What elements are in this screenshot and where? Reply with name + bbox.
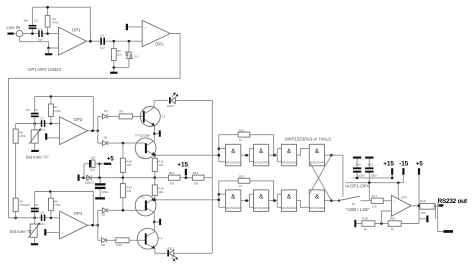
wire T1 collector to LED1 xyxy=(154,99,168,101)
svg-text:T2: T2 xyxy=(141,155,145,159)
node OP5 output xyxy=(418,204,421,207)
svg-text:+5: +5 xyxy=(107,155,115,162)
node D5 base xyxy=(122,209,125,212)
svg-text:КР1533ЛА3: КР1533ЛА3 xyxy=(281,206,297,210)
node D1 top xyxy=(128,40,131,43)
svg-text:240: 240 xyxy=(169,182,174,186)
node feedback R7 xyxy=(50,95,53,98)
resistor R21 feedback row1 xyxy=(219,128,274,155)
op-amp OP4 xyxy=(60,211,88,239)
svg-text:R13: R13 xyxy=(193,171,199,175)
gate U2C xyxy=(281,190,297,212)
node R2 top xyxy=(113,40,116,43)
wire U2D out xyxy=(325,200,339,202)
svg-text:КР1533ЛА3: КР1533ЛА3 xyxy=(253,160,269,164)
resistor R10 xyxy=(120,143,132,178)
capacitor C1 xyxy=(38,27,43,42)
capacitor C11 xyxy=(365,157,377,183)
svg-text:170k: 170k xyxy=(54,203,61,207)
node OP1 output xyxy=(89,40,92,43)
node R11 R15 xyxy=(154,176,157,179)
wire OP3 input line xyxy=(16,123,60,125)
svg-text:10n: 10n xyxy=(38,38,43,42)
resistor R18 xyxy=(362,217,388,232)
resistor R2 xyxy=(111,41,122,67)
svg-text:R12: R12 xyxy=(169,171,175,175)
wire T3 collector down xyxy=(153,213,155,232)
wire OP5 minus feedback xyxy=(381,211,391,224)
node C10 rail xyxy=(356,177,359,180)
svg-text:Set tone "B": Set tone "B" xyxy=(10,229,34,234)
wire OP4 input line xyxy=(9,217,60,219)
wire OP3 feedback top xyxy=(35,96,94,98)
svg-text:10k: 10k xyxy=(126,163,131,167)
svg-text:+15: +15 xyxy=(383,161,394,168)
node plus input xyxy=(47,47,50,50)
reference bar at OP2 plus xyxy=(126,24,142,30)
op-amp OP3 xyxy=(60,117,88,145)
wire cross couple A xyxy=(309,155,331,194)
wire U1C out to U1D xyxy=(297,149,310,156)
svg-text:R17: R17 xyxy=(372,194,378,198)
gate U2B xyxy=(253,190,269,212)
svg-text:RS232 out: RS232 out xyxy=(438,198,468,205)
svg-text:10k: 10k xyxy=(158,163,163,167)
node U1D out xyxy=(330,154,333,157)
wire OP3 output xyxy=(88,130,98,132)
node T2 emitter xyxy=(154,154,157,157)
node OP4 output xyxy=(97,224,100,227)
capacitor C13 to ground xyxy=(95,178,109,198)
svg-text:-15: -15 xyxy=(399,161,409,168)
node OP3 feedback xyxy=(91,129,94,132)
svg-text:1k: 1k xyxy=(239,184,243,188)
svg-text:КР1533ЛА3: КР1533ЛА3 xyxy=(226,206,242,210)
svg-text:OP1-OP4 LM324: OP1-OP4 LM324 xyxy=(28,67,62,72)
wire OP4 output split xyxy=(97,210,99,240)
svg-text:170k: 170k xyxy=(54,109,61,113)
ground below C13 xyxy=(95,197,105,199)
svg-text:+: + xyxy=(62,231,64,235)
svg-text:+: + xyxy=(144,26,146,30)
node R5 R6 chain xyxy=(14,217,17,220)
wire row1 input bracket xyxy=(219,149,226,162)
svg-text:R9: R9 xyxy=(120,110,124,114)
diode D4 xyxy=(98,136,145,146)
ground RS232 xyxy=(443,230,453,233)
wire OP4 feedback down xyxy=(92,192,94,226)
svg-text:47n: 47n xyxy=(25,203,30,207)
svg-text:D6: D6 xyxy=(101,243,105,247)
svg-text:C6: C6 xyxy=(34,108,38,112)
wire U1A out xyxy=(241,149,254,162)
terminal +5 xyxy=(416,161,424,224)
node T1 emitter xyxy=(153,132,156,135)
wire plus15 rail right xyxy=(353,177,393,179)
wire U2C out to U2D xyxy=(297,201,310,208)
reference bar at T3 collector xyxy=(154,219,161,225)
capacitor C12 polarized xyxy=(84,156,100,178)
svg-text:10n: 10n xyxy=(23,19,28,23)
svg-text:КР1533ЛА3: КР1533ЛА3 xyxy=(281,160,297,164)
ground below R2 xyxy=(110,68,117,74)
svg-text:+: + xyxy=(61,47,63,51)
terminal bar clamp left xyxy=(78,175,84,181)
resistor R9 xyxy=(119,110,143,119)
svg-text:LED2: LED2 xyxy=(166,247,174,251)
node clamp diode left xyxy=(82,176,85,179)
gate U2D xyxy=(309,190,325,212)
svg-text:+: + xyxy=(393,199,395,203)
node at R1 bottom xyxy=(46,32,49,35)
resistor R11 xyxy=(152,155,164,178)
svg-text:R20: R20 xyxy=(390,217,396,221)
svg-text:+: + xyxy=(62,137,64,141)
wire C2 branch xyxy=(31,7,33,25)
wire OP4 feedback top xyxy=(35,191,94,193)
node C2 bottom xyxy=(31,32,34,35)
svg-text:КР1533ЛА3: КР1533ЛА3 xyxy=(226,160,242,164)
svg-text:1k: 1k xyxy=(363,227,367,231)
resistor R16 base T4 xyxy=(116,238,145,247)
transistor T1 xyxy=(140,107,165,127)
reference bar at OP4 plus xyxy=(44,229,59,235)
svg-text:OP3: OP3 xyxy=(74,117,83,122)
capacitor C3 xyxy=(100,34,105,50)
terminal +15 mid xyxy=(177,162,188,179)
svg-text:10k: 10k xyxy=(117,53,122,57)
svg-text:2xКР1533ЛА3 or 74ALS: 2xКР1533ЛА3 or 74ALS xyxy=(285,136,332,141)
resistor R14 xyxy=(120,178,132,211)
terminal RS232 pin xyxy=(439,204,444,206)
terminal +15 xyxy=(383,161,394,180)
svg-text:T1: T1 xyxy=(162,115,166,119)
node clamp plus5 top xyxy=(98,163,101,166)
svg-text:R18: R18 xyxy=(362,217,368,221)
node R10 R14 xyxy=(122,176,125,179)
capacitor C9 xyxy=(40,211,46,226)
wire shield to plus input xyxy=(20,37,49,48)
capacitor C8 xyxy=(25,192,39,218)
wire OP1 output xyxy=(87,40,101,42)
node C6 bottom xyxy=(33,122,36,125)
wire OP5 supply xyxy=(397,183,399,199)
terminal +5 clamp xyxy=(100,155,115,165)
svg-text:100n: 100n xyxy=(102,190,109,194)
terminal -15 xyxy=(399,161,409,183)
node row2 in lower xyxy=(218,199,221,202)
svg-text:C2: C2 xyxy=(34,19,38,23)
resistor R12 xyxy=(168,171,180,186)
wire LED2 to main vertical xyxy=(174,252,213,254)
svg-text:to OP1-OP4: to OP1-OP4 xyxy=(345,184,369,189)
wire U2B out xyxy=(269,194,282,207)
connector J1 xyxy=(16,30,22,36)
svg-text:1k: 1k xyxy=(390,227,394,231)
resistor R6 xyxy=(13,198,26,218)
svg-text:КР1533ЛА3: КР1533ЛА3 xyxy=(309,160,325,164)
terminal bar R18 left xyxy=(354,220,362,227)
svg-text:10n: 10n xyxy=(40,222,45,226)
resistor R19 xyxy=(420,199,439,215)
node clamp plus5 xyxy=(98,176,101,179)
wire T2 emitter to gates xyxy=(155,154,219,156)
wire U1D out xyxy=(325,154,343,156)
node U2D out xyxy=(330,199,333,202)
svg-text:T4: T4 xyxy=(159,237,163,241)
wire T3 emitter to gates xyxy=(155,199,219,201)
wire C1 to minus node xyxy=(43,33,59,35)
wire row2 input bracket xyxy=(219,194,226,207)
wire plus input xyxy=(49,47,59,49)
svg-text:1k: 1k xyxy=(239,138,243,142)
wire minus15 rail xyxy=(346,182,404,184)
svg-text:2μ2: 2μ2 xyxy=(100,45,105,49)
resistor R15 xyxy=(152,178,164,200)
connector RS232 lines xyxy=(436,203,438,219)
transistor T3 xyxy=(135,195,156,216)
wire feedback top xyxy=(32,7,90,41)
ground below pot B xyxy=(31,243,38,245)
svg-text:КТ3102ВМ: КТ3102ВМ xyxy=(135,134,150,138)
svg-text:Line IN: Line IN xyxy=(7,25,21,30)
svg-text:D5: D5 xyxy=(101,213,105,217)
svg-text:C9: C9 xyxy=(40,211,44,215)
resistor R1 xyxy=(45,7,59,32)
switch S1 USB LSB xyxy=(338,196,371,206)
gate U1C xyxy=(281,144,297,166)
svg-text:47n: 47n xyxy=(25,108,30,112)
svg-text:C3: C3 xyxy=(100,34,104,38)
capacitor C6 xyxy=(25,97,39,124)
svg-text:КР1533ЛА3: КР1533ЛА3 xyxy=(253,206,269,210)
op-amp OP2 xyxy=(142,20,170,46)
wire OP2 output routing xyxy=(9,34,181,218)
node T2 base xyxy=(122,142,125,145)
svg-text:C7: C7 xyxy=(40,116,44,120)
resistor R8 xyxy=(49,192,62,218)
diode D7 clamp xyxy=(85,175,100,184)
svg-text:+15: +15 xyxy=(177,162,188,169)
reference bar at T1 emitter xyxy=(154,130,160,136)
wire switch node down xyxy=(368,183,370,201)
LED LED2 xyxy=(166,247,178,262)
node OP3 output xyxy=(97,129,100,132)
svg-text:S1: S1 xyxy=(352,202,356,206)
potentiometer Set tone A xyxy=(29,124,41,150)
svg-text:C11: C11 xyxy=(368,162,374,166)
resistor R22 feedback row2 xyxy=(219,175,274,201)
svg-text:"USB / LSB": "USB / LSB" xyxy=(346,207,370,212)
resistor R20 xyxy=(388,217,419,232)
wire OP4 output xyxy=(88,224,98,226)
reference bar right of R20 xyxy=(419,216,429,223)
svg-text:170k: 170k xyxy=(19,203,26,207)
wire +15 rail xyxy=(83,177,212,179)
node U1A out xyxy=(245,154,248,157)
input terminal bar xyxy=(7,33,13,35)
svg-text:C10: C10 xyxy=(356,162,362,166)
svg-text:10k: 10k xyxy=(421,211,426,215)
gate U1B xyxy=(253,144,269,166)
op-amp OP5 xyxy=(391,195,411,216)
node R18 R20 xyxy=(380,222,383,225)
svg-text:170k: 170k xyxy=(19,134,26,138)
svg-text:100n: 100n xyxy=(358,174,365,178)
wire RS232 ground xyxy=(438,219,444,232)
svg-text:C14: C14 xyxy=(90,156,96,160)
node T3 collector xyxy=(153,221,156,224)
capacitor C10 xyxy=(353,157,365,178)
node U2B out xyxy=(273,199,276,202)
resistor R17 xyxy=(371,194,391,209)
svg-text:D3: D3 xyxy=(104,109,108,113)
node U1B out xyxy=(273,154,276,157)
node R7 bottom xyxy=(50,122,53,125)
potentiometer Set tone B xyxy=(28,218,40,243)
svg-text:R21: R21 xyxy=(239,128,245,132)
wire T1 emitter down xyxy=(153,126,155,141)
gate U2A xyxy=(226,190,242,212)
capacitor C7 xyxy=(40,116,46,131)
wire T1 collector up xyxy=(153,100,155,107)
node feedback R8 xyxy=(49,190,52,193)
svg-text:КР1533ЛА3: КР1533ЛА3 xyxy=(309,206,325,210)
capacitor C2 xyxy=(23,19,38,34)
wire U1B out xyxy=(269,149,282,162)
svg-text:+5: +5 xyxy=(416,161,424,168)
reference bar at OP3 plus xyxy=(45,133,60,139)
wire T4 emitter down xyxy=(155,249,167,253)
resistor R13 xyxy=(192,171,204,186)
LED LED1 xyxy=(167,93,179,109)
svg-text:100n: 100n xyxy=(370,174,377,178)
node R2 bottom xyxy=(113,66,116,69)
node -15 OP5 supply xyxy=(397,181,400,184)
svg-text:КД103: КД103 xyxy=(85,180,94,184)
ground at OP1 plus xyxy=(45,48,52,55)
svg-text:C8: C8 xyxy=(34,203,38,207)
node R8 bottom xyxy=(50,217,53,220)
svg-text:OP5: OP5 xyxy=(401,195,407,199)
svg-text:T3: T3 xyxy=(141,196,145,200)
svg-text:LED1: LED1 xyxy=(167,104,175,108)
resistor R7 xyxy=(49,97,62,124)
diode D3 xyxy=(98,109,119,119)
svg-text:470k: 470k xyxy=(52,20,59,24)
svg-text:OP4: OP4 xyxy=(74,211,83,216)
svg-text:OP1: OP1 xyxy=(72,27,81,32)
wire OP5 output xyxy=(411,205,420,207)
transistor T2 xyxy=(135,138,156,159)
node C11 rail xyxy=(368,181,371,184)
svg-text:R22: R22 xyxy=(239,175,245,179)
svg-text:750: 750 xyxy=(193,182,198,186)
wire OP3 output split xyxy=(97,116,99,143)
wire C3 to OP2 xyxy=(105,40,142,42)
wire connector to C1 xyxy=(23,33,38,35)
op-amp OP1 xyxy=(59,27,87,55)
node row1 in upper xyxy=(218,147,221,150)
svg-text:10k: 10k xyxy=(372,205,377,209)
svg-text:10μ: 10μ xyxy=(90,167,95,171)
node OP4 feedback xyxy=(91,224,94,227)
svg-text:D4: D4 xyxy=(104,136,108,140)
wire terminal to connector xyxy=(14,33,16,35)
node C8 bottom xyxy=(33,217,36,220)
svg-text:10k: 10k xyxy=(126,189,131,193)
wire U2A out xyxy=(241,194,254,207)
node row2 in upper xyxy=(218,193,221,196)
node U2A out xyxy=(245,199,248,202)
svg-text:C1: C1 xyxy=(38,27,42,31)
diode D6 xyxy=(98,238,116,247)
svg-text:R19: R19 xyxy=(420,199,426,203)
wire OP3 feedback down xyxy=(92,97,94,131)
diode D5 xyxy=(98,208,145,217)
diodes D1 D2 antiparallel xyxy=(126,41,139,67)
svg-text:OP2: OP2 xyxy=(155,42,164,47)
gate U1D xyxy=(309,144,325,166)
svg-text:R16: R16 xyxy=(116,243,122,247)
gate U1A xyxy=(226,144,242,166)
wire main vertical xyxy=(211,100,213,253)
svg-text:10k: 10k xyxy=(158,190,163,194)
node T3 emitter xyxy=(154,199,157,202)
wire R2 D1 bottom xyxy=(114,67,129,69)
svg-text:Set tone "A": Set tone "A" xyxy=(26,155,50,160)
node row1 in lower xyxy=(218,154,221,157)
wire cross couple B xyxy=(309,162,331,201)
wire LED1 to main vertical xyxy=(175,99,212,101)
resistor R5 xyxy=(13,124,26,199)
wire U1D out down to switch xyxy=(342,155,344,197)
svg-text:D1: D1 xyxy=(134,55,138,59)
ground below pot A xyxy=(31,150,38,152)
transistor T4 xyxy=(137,228,162,249)
